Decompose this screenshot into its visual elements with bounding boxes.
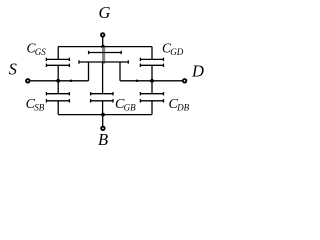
wire rail right drop to CGD: [151, 47, 153, 60]
svg-text:SB: SB: [34, 103, 45, 113]
terminal B: [101, 127, 105, 131]
capacitor CSB: [46, 92, 69, 103]
wire top rail (gate rail): [58, 46, 152, 48]
wire CDB to bottom rail: [151, 101, 153, 115]
node gate junction: [101, 45, 105, 49]
capacitor CGS: [46, 58, 69, 67]
wire bottom rail (bulk rail): [58, 114, 152, 116]
svg-text:GB: GB: [124, 103, 136, 113]
channel line: [79, 60, 128, 63]
wire source riser: [88, 62, 90, 81]
gate plate: [89, 51, 122, 54]
wire S rail: [30, 80, 88, 82]
svg-text:GD: GD: [170, 47, 183, 57]
svg-text:D: D: [191, 62, 204, 81]
terminal S: [26, 79, 30, 83]
wire S rail to CSB: [57, 81, 59, 94]
capacitor CDB: [140, 92, 163, 103]
wire G to top rail: [102, 37, 104, 47]
wire CSB to bottom rail: [57, 101, 59, 115]
terminal G: [101, 33, 105, 37]
wire CGD to D rail: [151, 65, 153, 81]
terminal D: [183, 79, 187, 83]
wire CGB to bottom rail: [102, 101, 104, 115]
capacitor CGB: [91, 92, 113, 103]
node small dot left: [70, 80, 72, 82]
svg-text:G: G: [99, 3, 111, 22]
svg-text:GS: GS: [35, 47, 46, 57]
wire D rail: [120, 80, 182, 82]
svg-text:S: S: [9, 60, 17, 79]
node D junction: [150, 79, 154, 83]
svg-text:B: B: [98, 130, 108, 149]
wire bottom rail to B: [102, 115, 104, 127]
wire channel to CGB: [102, 62, 104, 94]
wire rail left drop to CGS: [57, 47, 59, 60]
node bulk junction: [101, 113, 105, 117]
capacitor CGD: [140, 58, 163, 67]
svg-text:DB: DB: [176, 103, 189, 113]
wire CGS to S rail: [57, 65, 59, 81]
gate poly bar (gray): [102, 47, 105, 63]
node S junction: [56, 79, 60, 83]
node small dot right: [136, 80, 138, 82]
wire D rail to CDB: [151, 81, 153, 94]
wire drain riser: [119, 62, 121, 81]
